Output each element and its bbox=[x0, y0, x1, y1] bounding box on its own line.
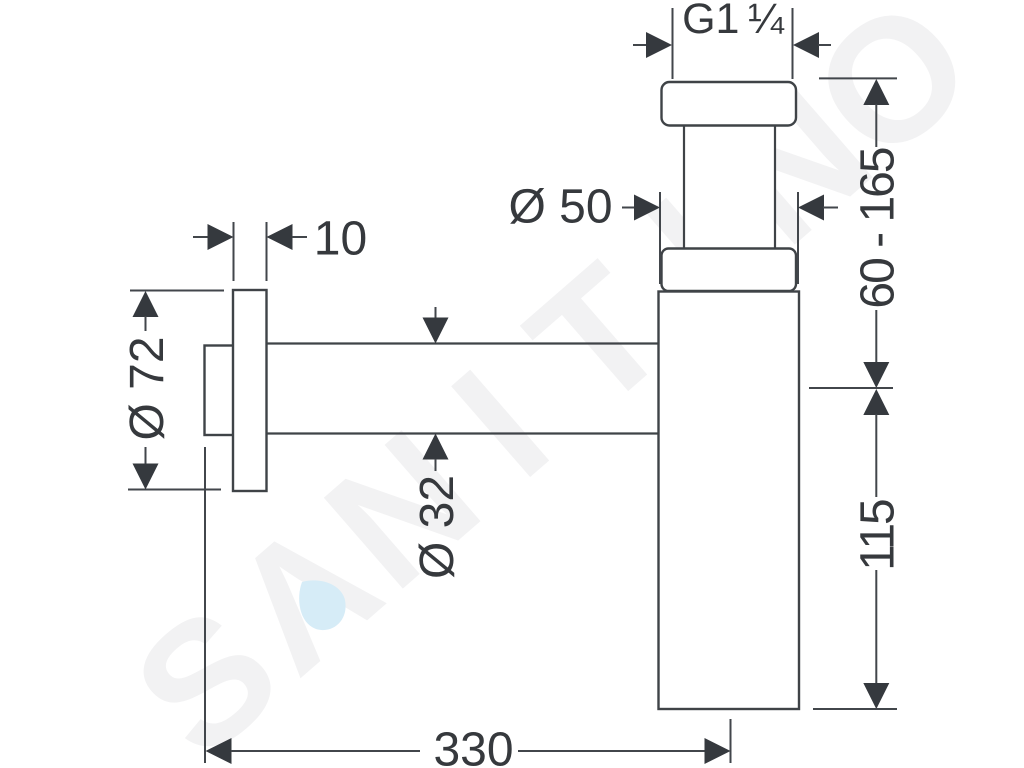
watermark letter A bbox=[197, 484, 413, 708]
dim D32 label bbox=[411, 475, 464, 579]
dim G1 1/4 right extension line bbox=[792, 8, 794, 79]
svg-text:G1 ¼: G1 ¼ bbox=[682, 0, 785, 43]
dim D32 top arrow bbox=[423, 307, 449, 344]
watermark letter I bbox=[418, 334, 583, 513]
dim 60-165 top reference line bbox=[819, 77, 897, 79]
dim G1 1/4 left extension line bbox=[672, 8, 674, 79]
dim 60-165 bottom tail bbox=[875, 310, 877, 364]
dim 115 bottom tail bbox=[875, 570, 877, 684]
dim 10 right arrow bbox=[267, 224, 308, 250]
svg-text:Ø 32: Ø 32 bbox=[411, 475, 464, 579]
dim D50 right arrow bbox=[798, 195, 838, 221]
dim 10 left extension line bbox=[233, 222, 235, 281]
dim 115 label bbox=[852, 500, 905, 571]
svg-text:10: 10 bbox=[314, 213, 367, 266]
dim D72 bottom arrow bbox=[133, 447, 159, 490]
svg-text:60 - 165: 60 - 165 bbox=[852, 148, 905, 308]
dim 60-165 label bbox=[852, 148, 905, 308]
watermark blue drop bbox=[299, 580, 345, 630]
svg-text:330: 330 bbox=[433, 724, 513, 768]
watermark letter O bbox=[777, 0, 1008, 198]
dim D72 top arrow bbox=[133, 291, 159, 331]
dim G1 1/4 right arrow bbox=[793, 32, 831, 58]
middle flange bbox=[662, 249, 797, 292]
svg-text:Ø 72: Ø 72 bbox=[121, 336, 174, 440]
dim D50 left extension line bbox=[659, 192, 661, 284]
dim 330 left arrow bbox=[206, 738, 421, 764]
watermark letter I2 bbox=[614, 162, 779, 341]
svg-text:115: 115 bbox=[852, 500, 905, 571]
top nut bbox=[662, 82, 797, 126]
dim D32 bottom arrow bbox=[423, 434, 449, 472]
dim 115 top arrow bbox=[863, 389, 889, 497]
dim 10 right extension line bbox=[266, 222, 268, 281]
dim 10 left arrow bbox=[193, 224, 234, 250]
watermark letter N bbox=[291, 395, 514, 625]
horizontal pipe bottom edge bbox=[267, 432, 659, 434]
dim 330 left extension line bbox=[204, 447, 206, 763]
dim 330 label bbox=[433, 724, 513, 768]
dim G1 1/4 left arrow bbox=[633, 32, 672, 58]
dim D50 label bbox=[508, 181, 612, 234]
dim G1 1/4 label bbox=[682, 0, 785, 43]
dim 330 right arrow bbox=[518, 738, 731, 764]
dim D50 right extension line bbox=[797, 192, 799, 284]
wall stub pipe bbox=[205, 346, 234, 436]
dim 330 right extension line bbox=[730, 719, 732, 763]
watermark letter N2 bbox=[683, 51, 906, 281]
dim junction line bbox=[809, 387, 893, 389]
dim 60-165 top arrow bbox=[863, 79, 889, 147]
watermark letter S bbox=[99, 570, 315, 768]
dim D72 label bbox=[121, 336, 174, 440]
dim 115 bottom arrow bbox=[863, 683, 889, 709]
siphon body bbox=[659, 292, 800, 710]
watermark letter T bbox=[494, 229, 703, 446]
wall flange plate bbox=[233, 290, 267, 491]
dim D50 left arrow bbox=[622, 195, 660, 221]
dim 10 label bbox=[314, 213, 367, 266]
dim D72 bottom reference line bbox=[128, 489, 221, 491]
dim 115 bottom reference line bbox=[813, 708, 897, 710]
svg-text:Ø 50: Ø 50 bbox=[508, 181, 612, 234]
dim 60-165 bottom arrow bbox=[863, 362, 889, 388]
horizontal pipe top edge bbox=[267, 342, 659, 344]
inlet pipe vertical bbox=[684, 125, 775, 255]
dim D72 top reference line bbox=[130, 290, 224, 292]
